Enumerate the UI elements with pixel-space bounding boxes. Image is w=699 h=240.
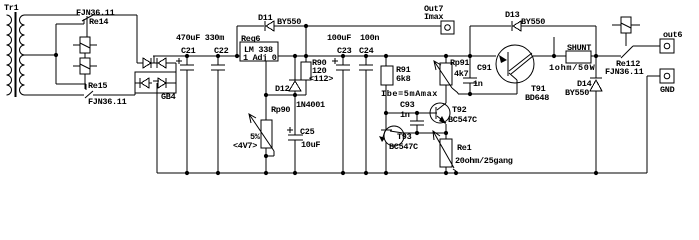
svg-text:D13: D13 [505, 10, 520, 20]
svg-text:1n: 1n [473, 79, 483, 89]
svg-text:BY550: BY550 [521, 17, 545, 27]
svg-text:BY550: BY550 [277, 17, 301, 27]
svg-text:BC547C: BC547C [389, 142, 418, 152]
svg-text:100n: 100n [360, 33, 379, 43]
svg-text:<112>: <112> [309, 74, 333, 84]
svg-text:T92: T92 [452, 105, 467, 115]
svg-text:Reg6: Reg6 [241, 34, 260, 44]
svg-text:BD648: BD648 [525, 93, 549, 103]
svg-text:BC547C: BC547C [448, 115, 477, 125]
svg-text:Re1: Re1 [457, 143, 472, 153]
svg-text:10uF: 10uF [301, 140, 320, 150]
svg-text:C91: C91 [477, 63, 492, 73]
svg-text:GND: GND [660, 85, 675, 95]
svg-text:1n: 1n [400, 110, 410, 120]
svg-text:<4V7>: <4V7> [233, 141, 257, 151]
svg-text:Rp91: Rp91 [450, 58, 469, 68]
svg-text:Re15: Re15 [88, 81, 107, 91]
svg-text:Imax: Imax [424, 12, 443, 22]
svg-text:6k8: 6k8 [396, 74, 411, 84]
svg-text:Tr1: Tr1 [4, 3, 19, 13]
svg-text:1N4001: 1N4001 [296, 100, 325, 110]
svg-text:C25: C25 [300, 127, 315, 137]
svg-text:Rp90: Rp90 [271, 105, 290, 115]
svg-text:Re14: Re14 [89, 17, 108, 27]
svg-text:BY550: BY550 [565, 88, 589, 98]
svg-text:D11: D11 [258, 13, 273, 23]
svg-text:1ohm/50W: 1ohm/50W [549, 63, 596, 73]
svg-text:GB4: GB4 [161, 92, 176, 102]
svg-text:out6: out6 [663, 30, 682, 40]
svg-text:C93: C93 [400, 100, 415, 110]
svg-text:C22: C22 [214, 46, 229, 56]
svg-text:D12: D12 [275, 84, 290, 94]
svg-text:100uF: 100uF [327, 33, 351, 43]
svg-text:1 Adj 0: 1 Adj 0 [243, 53, 277, 63]
svg-text:SHUNT: SHUNT [567, 43, 591, 53]
svg-text:FJN36.11: FJN36.11 [88, 97, 127, 107]
svg-text:470uF 330m: 470uF 330m [176, 33, 224, 43]
svg-text:20ohm/25gang: 20ohm/25gang [455, 156, 513, 166]
svg-text:Ibe=5mAmax: Ibe=5mAmax [381, 89, 438, 99]
svg-text:FJN36.11: FJN36.11 [605, 67, 644, 77]
